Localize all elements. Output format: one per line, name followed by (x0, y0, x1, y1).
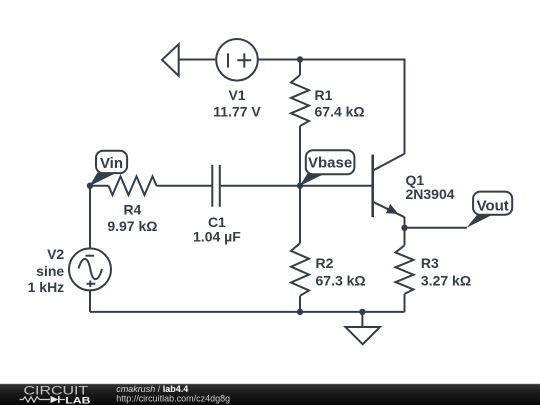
wire R4 to C1 (157, 185, 212, 187)
resistor R1 (291, 75, 309, 126)
svg-text:R3: R3 (421, 255, 439, 271)
voltage source V2 (69, 248, 111, 290)
svg-text:11.77 V: 11.77 V (213, 104, 261, 120)
wire junction down to R1 (299, 60, 301, 76)
junction dot ground (359, 309, 365, 315)
wire V2 to bottom rail (89, 290, 91, 312)
svg-text:9.97 kΩ: 9.97 kΩ (107, 218, 157, 234)
wire emitter node to Vout (405, 227, 468, 229)
wire C1 to Vbase node (221, 185, 300, 187)
probe arrow (162, 44, 179, 76)
svg-text:http://circuitlab.com/cz4dg8g: http://circuitlab.com/cz4dg8g (116, 394, 230, 404)
bottom rail wire (90, 311, 405, 313)
wire V1 to junction (258, 59, 301, 61)
svg-text:3.27 kΩ: 3.27 kΩ (421, 273, 471, 289)
node label Vout (467, 192, 513, 228)
wire R3 to bottom rail (404, 294, 406, 312)
svg-text:1 kHz: 1 kHz (28, 279, 65, 295)
svg-text:R1: R1 (315, 87, 333, 103)
wire arrow to V1 (179, 59, 217, 61)
transistor Q1 (373, 154, 405, 228)
junction dot R2 bottom (297, 309, 303, 315)
junction dot Vin (87, 183, 93, 189)
capacitor C1 (212, 165, 220, 207)
junction dot Vbase (297, 183, 303, 189)
svg-text:Vin: Vin (100, 155, 123, 172)
svg-text:67.4 kΩ: 67.4 kΩ (315, 104, 365, 120)
logo diode (51, 396, 66, 403)
svg-text:cmakrush / lab4.4: cmakrush / lab4.4 (116, 384, 188, 394)
wire R1 to Vbase node (299, 126, 301, 186)
node label Vbase (300, 150, 354, 185)
svg-text:R4: R4 (123, 202, 141, 218)
logo resistor zigzag (20, 397, 51, 402)
wire Vin node to R4 (90, 185, 109, 187)
svg-text:V1: V1 (228, 87, 245, 103)
resistor R3 (396, 245, 414, 294)
svg-text:Vout: Vout (477, 198, 509, 215)
wire R2 to bottom rail (299, 296, 301, 312)
footer bar (0, 384, 540, 405)
resistor R2 (291, 243, 309, 295)
wire Vbase node down to R2 (299, 186, 301, 244)
voltage source V1 (216, 39, 258, 81)
wire Vin node down to V2 (89, 186, 91, 249)
svg-text:67.3 kΩ: 67.3 kΩ (316, 273, 366, 289)
node label Vin (90, 151, 128, 186)
resistor R4 (109, 176, 157, 195)
junction dot top (297, 56, 303, 62)
svg-text:V2: V2 (47, 246, 64, 262)
svg-text:LAB: LAB (65, 395, 90, 405)
svg-text:2N3904: 2N3904 (406, 186, 455, 202)
ground (345, 312, 380, 344)
svg-text:R2: R2 (316, 255, 334, 271)
wire junction to top-right corner (300, 60, 405, 155)
svg-text:sine: sine (36, 263, 64, 279)
svg-text:1.04 µF: 1.04 µF (193, 228, 241, 244)
svg-text:Vbase: Vbase (308, 155, 352, 172)
wire emitter node down to R3 (404, 228, 406, 246)
junction dot emitter (401, 225, 407, 231)
wire base (300, 185, 373, 187)
